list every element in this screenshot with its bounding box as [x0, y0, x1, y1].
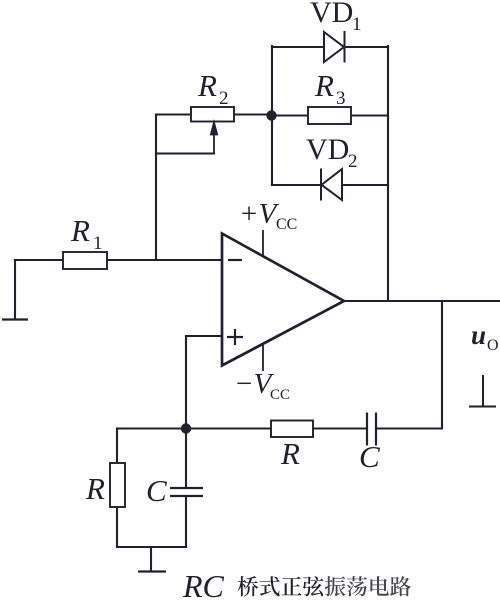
resistor R (bottom left, vertical) [110, 463, 125, 507]
svg-text:−V: −V [234, 368, 275, 400]
wire bottom join [117, 546, 186, 548]
wire R2 right lead [234, 113, 272, 115]
svg-text:O: O [487, 337, 499, 354]
svg-text:u: u [471, 320, 486, 350]
svg-text:1: 1 [93, 233, 103, 254]
capacitor C (bottom left) [170, 488, 203, 496]
wire noninverting input vertical [185, 336, 187, 428]
wire C branch top lead [185, 429, 187, 489]
wire inverting input line [107, 259, 222, 261]
wire feedback mid segment [313, 427, 367, 429]
svg-text:R: R [280, 436, 300, 471]
op-amp minus input sign [228, 259, 242, 261]
op-amp U1 triangle [222, 234, 344, 366]
R2 wiper arrow [211, 123, 217, 154]
wire output drop to feedback [441, 301, 443, 429]
node junction dot (noninverting / RC feedback) [181, 423, 191, 433]
svg-text:R: R [314, 68, 334, 103]
svg-text:2: 2 [348, 151, 358, 172]
wire R1 ground drop [14, 260, 16, 318]
wire R2 left rail down to inverting input [155, 115, 157, 261]
diode VD2 [321, 169, 342, 201]
svg-text:R: R [197, 68, 217, 103]
wire feedback left segment [186, 427, 271, 429]
svg-text:C: C [359, 439, 380, 474]
ground (R1 left) [2, 318, 28, 320]
wire VD1 top row [272, 46, 388, 48]
svg-text:CC: CC [270, 387, 290, 403]
-Vcc supply stub [262, 343, 264, 371]
svg-text:1: 1 [352, 14, 362, 35]
wire output line [344, 300, 500, 302]
svg-text:3: 3 [336, 88, 346, 109]
svg-text:C: C [146, 473, 167, 508]
svg-text:+V: +V [239, 198, 280, 230]
svg-text:R: R [85, 471, 105, 506]
ground (bottom left) [138, 570, 166, 572]
wire VD2 row [272, 184, 388, 186]
wire right rail of diode network [387, 46, 389, 301]
wire left rail of diode network [271, 46, 273, 185]
diode VD1 [324, 31, 345, 63]
ground (output reference) [469, 375, 496, 407]
node junction dot (R2/R3/diode network) [266, 110, 276, 120]
wire noninverting input horizontal [186, 335, 222, 337]
wire bottom-left branch top [117, 427, 186, 429]
svg-text:CC: CC [276, 216, 297, 233]
resistor R (feedback series) [271, 421, 313, 438]
resistor R2 (potentiometer body) [191, 107, 234, 122]
wire R3 row left [272, 114, 308, 116]
+Vcc supply stub [262, 230, 264, 256]
wire R2 wiper to left rail [156, 152, 214, 154]
wire ground stub bottom-left [150, 547, 152, 571]
wire feedback right segment [376, 427, 442, 429]
resistor R3 [308, 107, 351, 124]
svg-text:2: 2 [219, 88, 229, 109]
wire R2 left lead [156, 113, 191, 115]
svg-text:VD: VD [306, 133, 349, 166]
wire R lead down [116, 429, 118, 464]
wire R1 left lead [15, 259, 63, 261]
svg-text:VD: VD [310, 0, 353, 29]
wire R3 row right [351, 114, 388, 116]
svg-text:R: R [70, 213, 90, 248]
svg-text:RC: RC [182, 568, 225, 604]
op-amp plus input sign [227, 329, 243, 345]
capacitor C (feedback series) [367, 413, 376, 446]
resistor R1 [63, 252, 107, 269]
wire C branch bottom lead [185, 496, 187, 547]
wire R bottom lead [116, 507, 118, 547]
